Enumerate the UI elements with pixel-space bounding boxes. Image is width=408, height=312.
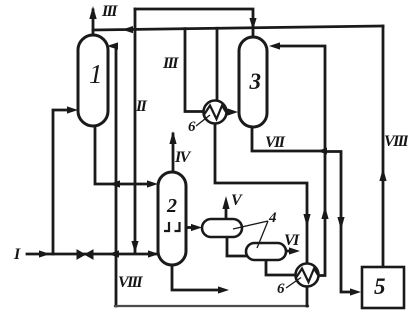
arrow down on recycle x=135: [131, 241, 138, 253]
wire branch x=185 into exchanger 6 left: [185, 29, 203, 112]
arrow up stream V: [222, 196, 229, 209]
valve on feed line: [77, 250, 93, 259]
svg-text:VIII: VIII: [384, 133, 408, 150]
wire junction to box 5 inlet: [325, 152, 350, 293]
svg-text:III: III: [101, 3, 118, 20]
svg-text:6: 6: [188, 119, 196, 135]
wire top line y=9 into column 3: [135, 9, 253, 36]
wire bottom return line y=304: [115, 305, 308, 307]
wire stream VIII riser x=383 down to box 5: [382, 26, 385, 267]
drum 4a: [202, 219, 242, 237]
arrow right into column 2 lower inlet: [148, 250, 159, 257]
wire top header y=29 from column1 to VIII riser: [93, 26, 383, 30]
label pointer lines: [196, 115, 301, 288]
wire column 1 bottoms to column 2 upper inlet: [95, 126, 148, 184]
arrow down on box 5 feed: [337, 217, 344, 230]
arrow left into column 1 right side: [107, 42, 118, 49]
svg-text:6: 6: [277, 281, 285, 297]
arrow right into column 3 left: [228, 108, 239, 115]
svg-text:VIII: VIII: [118, 274, 143, 291]
arrow up on x=325 riser: [321, 206, 328, 219]
column 1: [78, 35, 108, 126]
wire column 3 right inlet riser x=325: [280, 46, 325, 276]
arrow right stream VI: [289, 247, 300, 254]
heat exchanger 6b: [296, 264, 319, 287]
arrow right on feed line I: [39, 250, 50, 257]
svg-text:2: 2: [166, 195, 177, 217]
arrow left on feed line at x=116 junction: [108, 250, 119, 257]
wire stream V riser from drum 4a: [225, 207, 228, 219]
wire stream IV riser from column 2 top: [172, 134, 175, 172]
arrow left on y=184 at x=116 junction: [109, 180, 120, 187]
svg-text:5: 5: [374, 274, 386, 299]
arrow right column 2 bottoms: [218, 286, 229, 293]
wire exchanger 6a outlet into column 3: [227, 111, 231, 114]
wire exchanger 6a bottom to exchanger 6b top: [215, 124, 307, 264]
wire branch x=217 into exchanger 6 top: [216, 28, 219, 101]
arrow right into drum 4a: [191, 224, 202, 231]
arrow left into column 3 right: [269, 42, 280, 49]
column 2 internals: [164, 222, 180, 231]
svg-text:1: 1: [89, 59, 103, 89]
wire drum 4b bottom to exchanger 6b left: [266, 260, 296, 275]
svg-text:VI: VI: [284, 232, 300, 249]
drum 4b: [246, 243, 286, 260]
wire vertical recycle x=135 from top corner down to feed line: [134, 9, 137, 252]
arrow right into column 2 upper inlet: [147, 180, 158, 187]
column 2: [158, 172, 186, 265]
wire exchanger 6b bottom stub: [306, 287, 309, 307]
heat exchanger 6a: [204, 101, 227, 124]
svg-text:3: 3: [249, 69, 262, 94]
arrow right into column 1 left: [67, 106, 78, 113]
wire stream III riser from column 1 top: [92, 10, 95, 36]
column 3: [239, 37, 267, 127]
arrow down into column 3 top: [249, 18, 256, 30]
wire feed branch to column 1 left inlet: [53, 110, 66, 254]
arrow down into exchanger 6b: [303, 214, 310, 227]
arrow up stream VIII riser: [379, 168, 386, 181]
wire stream VI from drum 4b: [286, 250, 291, 253]
arrow left at VII junction: [317, 148, 327, 155]
arrow right into box 5: [350, 288, 361, 295]
svg-text:4: 4: [268, 210, 277, 226]
wire feed line I y=254: [27, 253, 160, 256]
svg-text:III: III: [162, 55, 179, 72]
svg-text:VII: VII: [265, 134, 286, 151]
wire drum 4a bottom to drum 4b: [227, 237, 246, 256]
arrow left on top header: [122, 26, 133, 33]
wire stream VII column 3 bottoms: [252, 127, 322, 151]
wire column 2 bottoms outlet arrow: [172, 265, 219, 290]
wire column 2 side outlet to drum 4a: [186, 226, 193, 229]
box 5: [362, 267, 404, 308]
arrow up stream IV: [169, 131, 176, 144]
arrow up stream III: [89, 6, 96, 19]
wire vertical x=116 column1 side line: [112, 46, 116, 306]
